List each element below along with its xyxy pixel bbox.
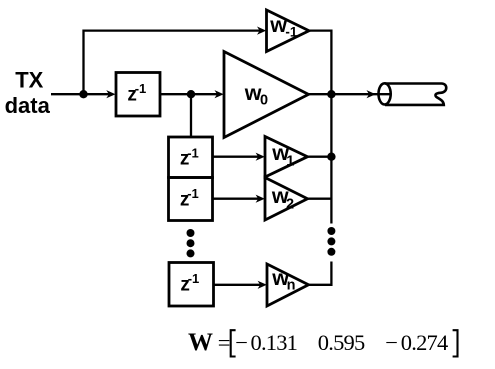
delay element z-1 box 4: [169, 263, 214, 307]
wire: w0 output through bus to channel: [309, 93, 391, 95]
svg-text:-1: -1: [135, 81, 147, 96]
wire: w2 output to bus: [308, 198, 332, 200]
svg-text:-1: -1: [187, 145, 199, 160]
svg-text:-1: -1: [285, 24, 297, 39]
node A input junction: [79, 90, 87, 98]
amplifier w1: [265, 137, 308, 178]
wire: w-1 output to bus and bus vertical: [309, 31, 331, 224]
channel cable left end ellipse: [379, 83, 391, 104]
amplifier w-1: [267, 10, 310, 52]
amplifier w0: [224, 52, 309, 138]
svg-text:-1: -1: [187, 186, 199, 201]
node B junction after box 1: [187, 90, 195, 98]
wire: junction down to z-1 box 2: [190, 94, 192, 137]
svg-text:2: 2: [286, 197, 294, 213]
channel cable body: [385, 84, 446, 105]
node D bus junction at w1 output: [327, 153, 335, 161]
delay element z-1 box 3: [169, 178, 213, 221]
svg-text:-1: -1: [188, 271, 200, 286]
formula right bracket: [453, 330, 458, 356]
wire: junction up to top branch and across to w-1 amp: [84, 31, 264, 95]
wire: z-1 box 1 output to w0 amp: [160, 93, 220, 95]
wire: z-1 box 4 output to wn amp: [214, 284, 264, 286]
svg-text:n: n: [287, 278, 296, 294]
formula left bracket: [231, 330, 236, 356]
delay element z-1 box 2: [169, 137, 213, 178]
amplifier w2: [265, 178, 308, 221]
svg-text:0.595: 0.595: [318, 330, 365, 355]
svg-text:−: −: [235, 330, 248, 355]
svg-text:0.131: 0.131: [251, 330, 298, 355]
delay element z-1 box 1: [116, 73, 160, 117]
svg-text:TX: TX: [15, 67, 43, 92]
svg-text:=: =: [218, 330, 231, 355]
formula W vector: [188, 329, 448, 356]
amplifier wn: [267, 264, 309, 306]
wire: TX data input to z-1 box: [51, 93, 112, 95]
wire: z-1 box 2 output to w1 amp: [213, 156, 262, 158]
wire: w1 output to bus: [308, 156, 332, 158]
left vertical ellipsis dots: [187, 229, 195, 257]
wire: wn output to bus stub: [309, 262, 332, 285]
svg-text:0.274: 0.274: [401, 330, 448, 355]
svg-text:0: 0: [260, 93, 268, 109]
node TX data input label: [5, 67, 51, 118]
bus vertical ellipsis dots: [327, 227, 335, 256]
node C bus junction at w0 output: [327, 90, 335, 98]
svg-text:1: 1: [286, 153, 294, 169]
svg-text:W: W: [188, 329, 213, 356]
wire: z-1 box 3 output to w2 amp: [213, 198, 262, 200]
svg-text:−: −: [385, 330, 398, 355]
svg-text:data: data: [5, 93, 51, 118]
